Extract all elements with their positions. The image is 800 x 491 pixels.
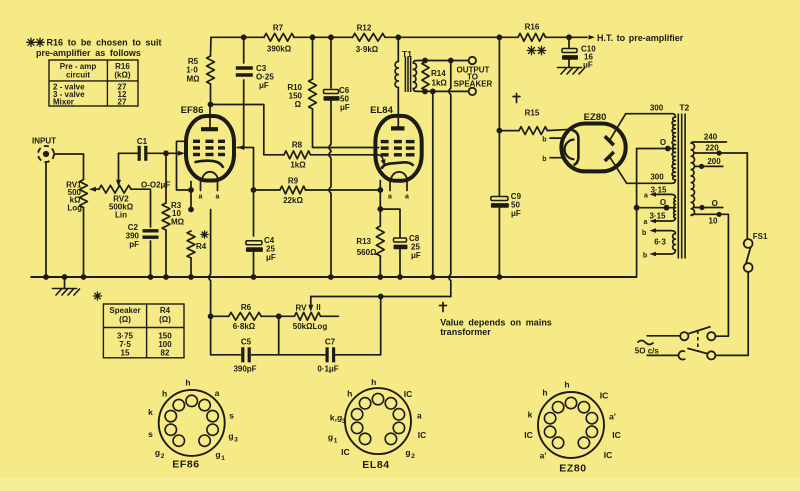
svg-text:μF: μF [411,251,421,260]
svg-text:R15: R15 [525,109,540,118]
T2 tap 10 [691,214,728,215]
svg-text:μF: μF [511,209,521,218]
potentiometer RV1 [80,180,88,208]
node C3 top [241,34,247,40]
output terminal lower [469,88,476,95]
svg-text:h: h [347,389,352,399]
node cathode C8 branch [377,206,383,212]
svg-text:μF: μF [583,61,593,70]
svg-text:a: a [644,192,648,199]
T2 tap 220 [695,152,748,154]
svg-text:5O c/s: 5O c/s [635,347,660,356]
resistor R15 [499,130,519,132]
node earth output [430,274,436,280]
svg-text:Log: Log [67,204,82,213]
potentiometer RV feedback 50k [279,315,295,317]
wire 220 tap to fuse [746,153,748,239]
svg-text:circuit: circuit [66,71,90,80]
transformer T1 primary [397,37,399,61]
svg-text:h: h [162,389,167,399]
wire R8 to EL84 g1 [311,154,379,156]
node heater CT riser [634,205,640,211]
EL84 heater dome [391,172,407,181]
EZ80 heater arc [565,140,575,160]
node EL84 anode HT junction [395,34,401,40]
svg-text:1: 1 [221,455,225,462]
resistor R3 [165,153,167,203]
node earth RV1 [81,274,87,280]
EF86 g3 tie line [177,141,192,190]
svg-text:(kΩ): (kΩ) [114,71,131,80]
node EF86 anode junction [208,102,214,108]
dagger R15 note [513,94,520,103]
svg-text:R13: R13 [356,237,371,246]
wire secondary bottom to output terminal [419,90,469,92]
asterisk speaker note [94,292,102,300]
node output earth tap [430,89,436,95]
svg-text:200: 200 [707,157,721,166]
transformer T2 core [678,114,685,259]
node earth C4 [251,274,257,280]
base diagram EF86 [159,390,225,456]
transformer T1 core [405,57,410,93]
node R10 top [310,34,316,40]
node earth R3 [163,274,169,280]
svg-text:k,g: k,g [330,413,342,423]
svg-text:μF: μF [259,81,269,90]
wire HT rail left segment (node A) [211,36,264,38]
svg-text:R14: R14 [431,69,446,78]
svg-text:b: b [642,230,646,237]
svg-text:IC: IC [524,430,533,440]
resistor R9 [254,189,281,191]
node C7 feedback junction [378,294,384,300]
wire g2 node to dropper [244,148,254,191]
svg-text:O: O [660,198,666,207]
svg-text:1: 1 [334,438,338,445]
svg-text:a: a [199,194,203,201]
node earth C9 [497,274,503,280]
svg-text:10: 10 [709,217,718,226]
svg-text:Lin: Lin [115,211,127,220]
svg-text:h: h [564,380,569,390]
svg-text:IC: IC [600,391,609,401]
RV feedback wiper arrow [310,297,312,307]
T2 tap 200 [695,165,723,167]
node R6 left [208,313,214,319]
valve V2 EL84 envelope [375,116,421,181]
wire input to RV1 [55,154,84,180]
output terminal upper [469,57,476,64]
svg-text:INPUT: INPUT [32,137,56,146]
svg-text:FS1: FS1 [753,232,768,241]
EL84 cathode lead [379,181,381,191]
svg-text:300: 300 [650,173,664,182]
svg-text:240: 240 [704,133,718,142]
svg-text:1·0: 1·0 [186,66,198,75]
node C10 top [566,34,572,40]
node earth R4 [188,274,194,280]
base diagram EL84 [345,388,411,454]
svg-text:390kΩ: 390kΩ [267,45,292,54]
svg-text:3·15: 3·15 [650,185,667,194]
svg-text:R8: R8 [292,141,303,150]
label R4 with asterisk [201,231,208,238]
base diagram EZ80 [538,392,604,458]
switch gang dashed link [697,331,699,353]
svg-text:IC: IC [418,430,427,440]
svg-text:h: h [371,377,376,387]
node R14 top [422,58,428,64]
svg-text:a': a' [609,412,616,422]
T2 heater centre tap [637,207,676,209]
svg-text:2: 2 [411,453,415,460]
wire HT rail R7 to R12 [294,36,353,38]
svg-text:560Ω: 560Ω [357,248,377,257]
EL84 heater pin a right [406,182,408,191]
svg-text:EF86: EF86 [181,105,204,116]
svg-text:T2: T2 [679,103,689,113]
svg-text:μF: μF [266,253,276,262]
svg-text:(Ω): (Ω) [119,315,131,324]
switch S1 upper pole [647,335,680,337]
label 50 c/s [638,341,654,345]
node earth C2 [148,274,154,280]
svg-text:6·3: 6·3 [654,238,666,247]
asterisks note marker [27,38,35,46]
svg-text:MΩ: MΩ [171,218,185,227]
wire EF86 g2 node down [253,190,255,236]
table speaker R4 frame [103,304,184,358]
wire HT to C9 [498,37,500,195]
svg-text:a: a [215,388,220,398]
svg-text:2: 2 [161,453,165,460]
node R9 left [251,187,257,193]
earth symbol [64,277,66,289]
resistor R14 [422,62,429,91]
svg-text:O: O [712,199,718,208]
svg-text:II: II [316,303,320,312]
wire fuse to switch [715,272,748,356]
svg-text:Ω: Ω [295,100,302,109]
svg-text:EL84: EL84 [370,105,393,116]
svg-text:C1: C1 [137,137,148,146]
wire HT rail to output arrow [546,36,588,38]
svg-text:MΩ: MΩ [186,75,200,84]
svg-text:C7: C7 [325,338,336,347]
svg-text:220: 220 [705,144,719,153]
svg-text:EF86: EF86 [172,459,200,471]
T2 HT centre tap [637,148,676,150]
svg-text:b: b [542,137,546,144]
svg-text:Speaker: Speaker [109,306,140,315]
svg-text:SPEAKER: SPEAKER [454,80,493,89]
svg-text:R16: R16 [525,23,540,32]
svg-text:b: b [542,156,546,163]
svg-text:pF: pF [129,240,139,249]
node earth C8 [397,274,403,280]
input socket [38,146,54,162]
EZ80 anode lower [605,152,614,161]
node cathode R4 junction [188,207,194,213]
arrow into EF86 g1 [166,152,179,154]
transformer T2 heater winding 3.15 lower [674,208,676,218]
earth symbol C10 [558,68,585,75]
fuse FS1 [744,239,753,248]
resistor R13 [379,209,381,226]
resistor R6 [211,315,229,317]
transformer T1 secondary [413,61,419,64]
RV2 wiper arrow [118,153,120,181]
node earth symbol stub [62,274,68,280]
node EF86 grid [163,150,169,156]
svg-text:3: 3 [342,418,346,425]
wire input shield to earth rail [45,163,47,278]
svg-text:a: a [388,194,392,201]
svg-text:s: s [229,411,234,421]
svg-text:a: a [644,219,648,226]
RV1 wiper arrow [95,188,100,190]
earth rail [31,276,637,278]
wire feedback horizontal [311,296,451,298]
svg-text:EZ80: EZ80 [584,112,607,123]
wire HT rail R12 to R16 [385,36,518,38]
svg-text:IC: IC [604,450,613,460]
EZ80 cathode [572,130,579,165]
svg-text:390pF: 390pF [233,365,256,374]
EF86 heater dome [202,172,218,181]
wire EF86 anode to R8 [211,105,285,155]
svg-text:R4: R4 [160,306,171,315]
capacitor C6 [330,37,332,88]
svg-text:g: g [328,432,333,442]
potentiometer RV2 [99,185,131,193]
svg-text:0·1μF: 0·1μF [317,365,338,374]
svg-text:C5: C5 [241,338,252,347]
svg-text:Value depends on mains: Value depends on mains [440,318,552,328]
node feedback tap [448,58,454,64]
svg-text:a: a [216,194,220,201]
EL84 heater pin a left [389,182,391,191]
node R14 bottom [422,89,428,95]
svg-text:g: g [215,450,220,460]
svg-text:k: k [148,407,153,417]
capacitor C10 [568,37,570,47]
capacitor C3 [243,37,245,63]
svg-text:6·8kΩ: 6·8kΩ [233,322,256,331]
svg-text:22kΩ: 22kΩ [283,196,303,205]
svg-text:R4: R4 [196,242,207,251]
svg-text:k: k [528,410,533,420]
node R15 junction [497,128,503,134]
transformer T2 heater winding 3.15 upper [655,194,675,197]
EL84 grid dashes [381,142,415,155]
node HT C9 [497,34,503,40]
wire 10 tap to switch [715,214,728,336]
capacitor C1 [119,152,140,154]
svg-text:RV: RV [296,304,308,313]
resistor R12 [353,33,386,41]
transformer T2 mains primary winding [691,143,694,215]
arrow H.T. output [589,35,596,40]
svg-text:s: s [148,429,153,439]
EF86 cathode lead [190,182,192,191]
T2 tap O [695,207,723,209]
node R6 RV junction [276,313,282,319]
T2 centre tap wire down to earth [636,149,638,278]
EL84 anode [391,126,405,130]
svg-text:(Ω): (Ω) [159,315,171,324]
wire feedback to C7 [380,297,382,355]
svg-text:a: a [405,194,409,201]
arrow into EF86 g2 [237,145,244,150]
svg-text:EZ80: EZ80 [559,463,587,475]
svg-text:3·15: 3·15 [649,211,666,220]
dagger transformer note [440,303,447,312]
svg-text:μF: μF [340,103,350,112]
EZ80 heater stub b upper [550,137,562,139]
svg-text:g: g [228,431,233,441]
wire EF86 cathode to R6 with hop [209,210,241,355]
svg-text:82: 82 [161,349,170,358]
svg-text:1kΩ: 1kΩ [432,79,448,88]
svg-text:a': a' [540,451,547,461]
svg-text:IC: IC [341,447,350,457]
EL84 cathode [382,162,414,168]
svg-text:15: 15 [121,349,130,358]
transformer T2 rectifier heater winding 6.3 [655,231,675,234]
transformer T2 HT winding upper 300 [626,114,676,117]
svg-text:O: O [660,138,666,147]
svg-text:3: 3 [234,437,238,444]
svg-text:R7: R7 [273,24,284,33]
capacitor C7 [327,347,334,362]
resistor R5 [210,37,213,56]
resistor R4 [187,231,195,258]
svg-text:EL84: EL84 [362,459,390,471]
switch S1 lower pole [647,354,678,356]
svg-text:1kΩ: 1kΩ [290,161,306,170]
svg-text:R12: R12 [357,24,372,33]
EF86 anode [201,127,218,131]
svg-text:3·9kΩ: 3·9kΩ [356,45,379,54]
node earth C6 [328,274,334,280]
EZ80 heater stub b lower [550,157,562,159]
wire secondary top to output terminal [419,60,469,62]
EF86 cathode [195,161,224,168]
resistor R16 [518,33,546,41]
node earth R13 [377,274,383,280]
resistor R8 [284,151,311,159]
svg-text:transformer: transformer [440,327,491,337]
svg-text:R16 to be chosen to suit: R16 to be chosen to suit [47,38,162,48]
wire C5 to C7 [252,354,327,356]
wire C6 to earth with hops [329,101,331,278]
EF86 heater pin a left [200,182,202,191]
EZ80 anode upper [605,136,614,145]
svg-text:g: g [405,448,410,458]
wire feedback from output with hops [449,61,451,297]
svg-text:R9: R9 [288,177,299,186]
svg-text:a: a [417,411,422,421]
EF86 heater pin a right [217,182,219,191]
valve V1 EF86 envelope [186,116,234,181]
node EL84 cathode [377,187,383,193]
svg-text:g: g [155,448,160,458]
node C6 top [328,34,334,40]
capacitor C2 [143,231,159,237]
transformer T2 HT winding lower 300 [672,149,675,181]
table R16 frame [49,60,138,106]
svg-text:300: 300 [650,104,664,113]
EF86 grid dashes [193,141,225,154]
svg-text:pre-amplifier as follows: pre-amplifier as follows [36,48,141,58]
svg-text:Mixer: Mixer [53,98,74,107]
valve V3 EZ80 envelope [561,124,625,172]
node earth input shield [43,274,49,280]
node EF86 cathode [188,187,194,193]
capacitor C8 [380,209,400,237]
T2 tap 240 [691,142,726,143]
resistor R10 [312,37,314,79]
svg-text:H.T. to pre-amplifier: H.T. to pre-amplifier [597,33,684,43]
svg-text:IC: IC [404,389,413,399]
svg-text:R6: R6 [241,303,252,312]
wire output lower to earth rail [432,91,434,277]
wire C7 to feedback corner [334,354,381,356]
resistor R7 [264,33,294,41]
capacitor C9 [491,197,508,201]
svg-text:27: 27 [118,98,127,107]
arrow into EL84 g1 [379,155,384,162]
svg-text:50kΩLog: 50kΩLog [293,322,328,331]
svg-text:h: h [542,388,547,398]
capacitor C4 [246,241,262,245]
capacitor C5 [243,347,249,362]
svg-text:IC: IC [612,430,621,440]
svg-text:h: h [185,378,190,388]
svg-text:b: b [643,252,647,259]
asterisks under R16 [527,46,535,54]
